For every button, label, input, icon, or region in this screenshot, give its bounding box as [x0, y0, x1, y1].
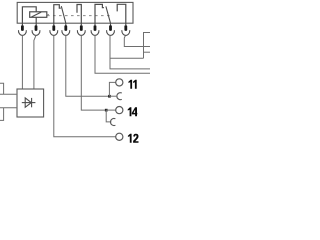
terminal circle 14 — [116, 107, 123, 114]
stub to circle 14 — [106, 109, 116, 111]
node 14 junction — [105, 109, 108, 112]
left entry corner C — [0, 83, 4, 94]
wire exit upper — [124, 36, 150, 47]
coil right stub — [47, 14, 49, 16]
contact arm A2 — [106, 6, 111, 23]
mechanical link dashed line — [47, 15, 113, 17]
ladder riser — [144, 33, 151, 59]
contact fixed hook H4 — [117, 4, 126, 25]
pin 7 — [109, 25, 112, 31]
contact fixed hook H1 — [54, 5, 61, 26]
socket 1 — [18, 30, 26, 35]
socket 4 — [62, 30, 70, 35]
node 11 junction — [108, 95, 111, 98]
left entry wire A — [0, 93, 17, 95]
stub to arc 11 — [109, 95, 117, 97]
socket 8 — [122, 30, 130, 35]
diode D1 — [22, 98, 36, 107]
socket 3 — [50, 30, 58, 35]
wire to ladder + branch — [110, 35, 150, 69]
terminal circle 11 — [116, 79, 123, 86]
left entry corner D — [0, 108, 4, 121]
ladder stub — [144, 51, 151, 53]
wire 12 net — [54, 35, 116, 137]
wire 14 net — [81, 35, 106, 110]
label 11 — [128, 80, 136, 89]
wire pin col A2 — [110, 23, 112, 25]
pin 2 — [35, 25, 38, 31]
socket arc 14 — [110, 119, 115, 126]
wire A1 coil down — [21, 35, 23, 89]
socket 2 — [32, 30, 40, 35]
socket arc 11 — [117, 93, 122, 100]
pin 1 — [21, 25, 24, 31]
left entry wire B — [0, 107, 17, 109]
pin 5 — [80, 25, 83, 31]
terminal circle 12 — [116, 133, 123, 140]
contact arm A1 — [61, 6, 66, 23]
diode box — [17, 89, 44, 117]
socket 6 — [91, 30, 99, 35]
relay outline box — [17, 2, 133, 23]
socket 5 — [77, 30, 85, 35]
socket 7 — [107, 30, 115, 35]
contact fixed hook H2 — [77, 5, 81, 26]
pin 8 — [124, 25, 127, 31]
wire exit bottom — [95, 35, 150, 73]
wire pin col A1 — [65, 23, 67, 25]
label 14 — [128, 107, 138, 116]
coil diagonal — [31, 12, 41, 17]
contact fixed hook H3 — [95, 4, 104, 25]
wire 14 dropper — [106, 110, 111, 122]
pin 4 — [64, 25, 67, 31]
wire A2 coil down — [34, 35, 36, 89]
wire 11 net — [66, 35, 110, 96]
wire 11 riser — [109, 82, 115, 96]
pin 3 — [52, 25, 55, 31]
pin 6 — [94, 25, 97, 31]
wire ladder rung — [110, 57, 144, 59]
label 12 — [128, 134, 139, 143]
coil K1 body — [30, 12, 47, 17]
coil K1 loop wire — [22, 7, 36, 26]
